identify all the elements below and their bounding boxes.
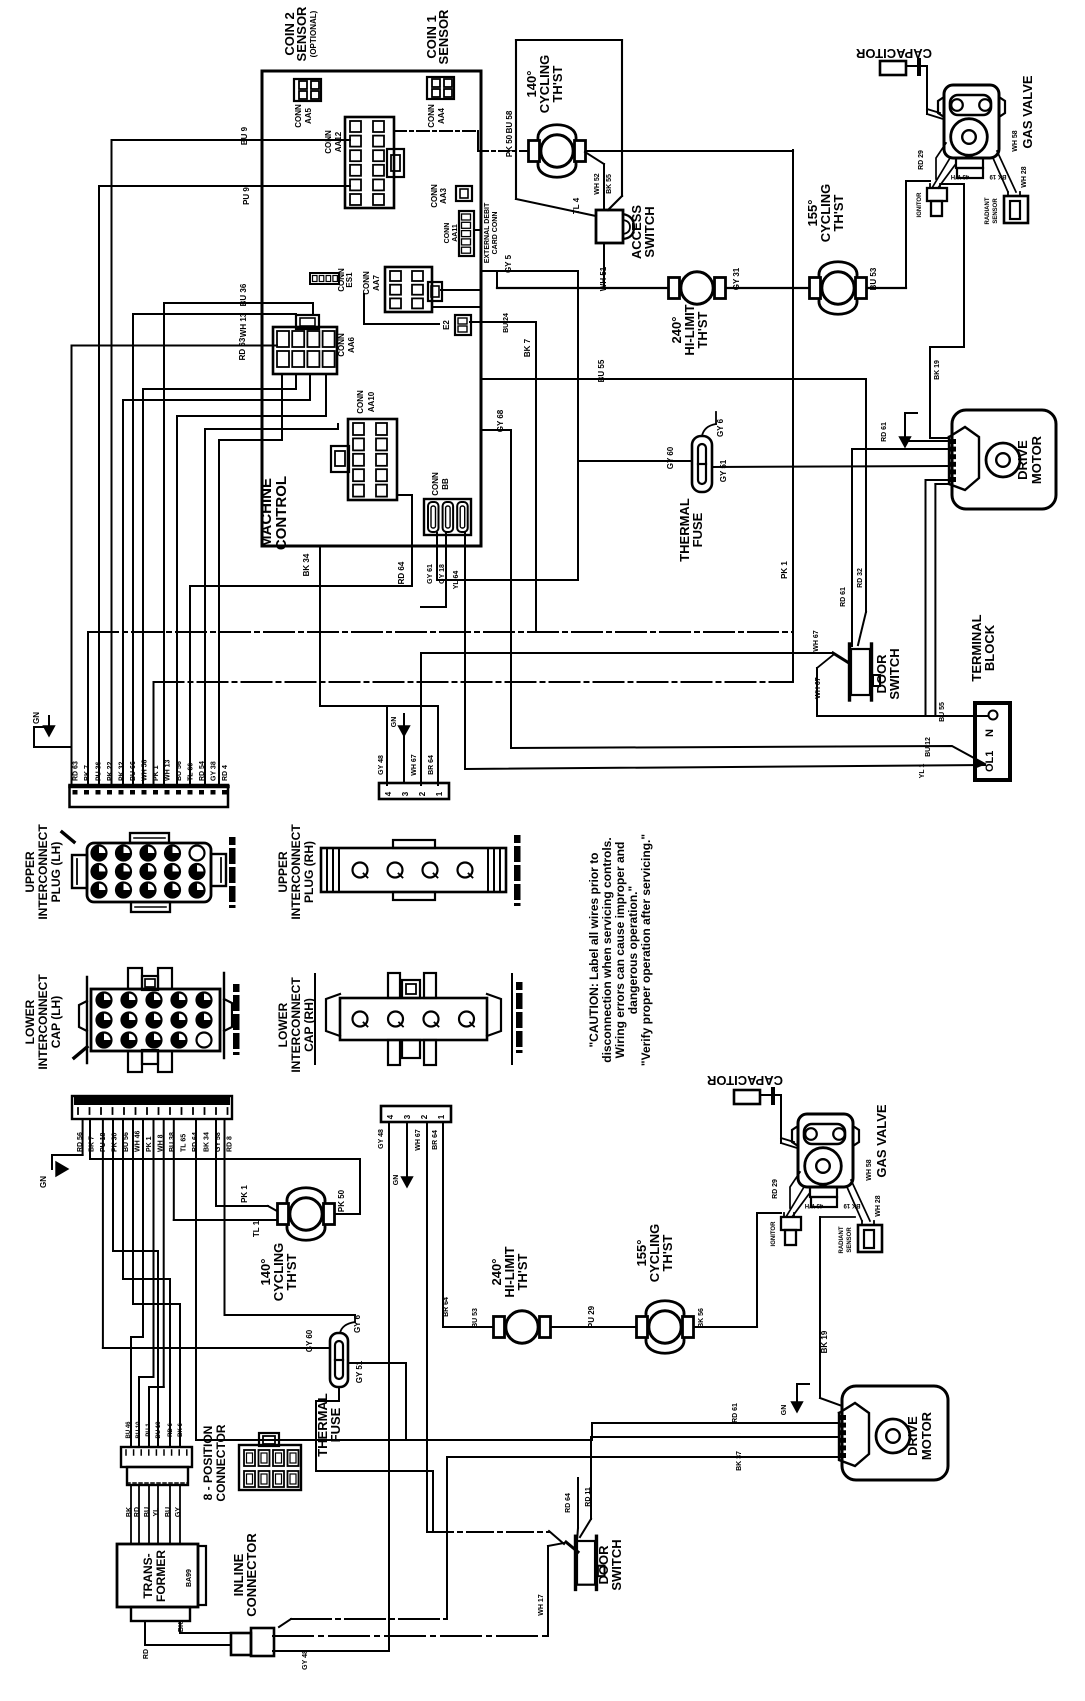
svg-text:GY 38: GY 38 <box>211 761 218 781</box>
svg-text:"Verify proper operation after: "Verify proper operation after servicing… <box>639 834 653 1066</box>
svg-text:BA99: BA99 <box>186 1569 193 1587</box>
svg-text:Wiring errors can cause improp: Wiring errors can cause improper and <box>613 842 627 1059</box>
svg-text:PU 36: PU 36 <box>96 761 103 781</box>
svg-text:WH 58: WH 58 <box>1012 130 1019 152</box>
svg-text:BU 46: BU 46 <box>126 1421 132 1439</box>
svg-text:1: 1 <box>435 791 444 796</box>
svg-text:DRIVE: DRIVE <box>905 1416 920 1456</box>
svg-text:WH 52: WH 52 <box>594 173 601 195</box>
svg-text:WH 51: WH 51 <box>599 266 608 291</box>
svg-text:BU 9: BU 9 <box>240 126 249 145</box>
svg-text:RD 4: RD 4 <box>222 765 229 781</box>
svg-text:AA5: AA5 <box>304 107 313 124</box>
svg-text:UPPER: UPPER <box>276 851 290 893</box>
svg-text:GY 31: GY 31 <box>732 267 741 290</box>
svg-text:BK 34: BK 34 <box>302 553 311 576</box>
svg-text:E2: E2 <box>442 320 451 330</box>
svg-text:PK 32: PK 32 <box>119 761 126 781</box>
svg-text:IGNITOR: IGNITOR <box>917 192 923 218</box>
svg-text:CONNECTOR: CONNECTOR <box>214 1424 228 1501</box>
svg-text:RD 63: RD 63 <box>73 761 80 781</box>
svg-text:WH 28: WH 28 <box>1021 166 1028 188</box>
svg-text:ES1: ES1 <box>345 272 354 288</box>
svg-text:DRIVE: DRIVE <box>1015 440 1030 480</box>
svg-text:YL: YL <box>153 1507 160 1517</box>
svg-text:CONTROL: CONTROL <box>273 476 290 550</box>
svg-text:CAPACITOR: CAPACITOR <box>706 1073 783 1088</box>
svg-text:TH'ST: TH'ST <box>660 1234 675 1271</box>
svg-text:GY 51: GY 51 <box>719 459 728 482</box>
svg-text:BU 18: BU 18 <box>156 1421 162 1439</box>
svg-text:CONN: CONN <box>362 271 371 295</box>
svg-text:TH'ST: TH'ST <box>695 311 710 348</box>
svg-text:BU 24: BU 24 <box>503 313 510 333</box>
svg-text:CAP (RH): CAP (RH) <box>302 998 316 1052</box>
svg-text:AA10: AA10 <box>367 391 376 412</box>
svg-text:BB: BB <box>441 478 450 490</box>
svg-text:FORMER: FORMER <box>154 1550 168 1602</box>
svg-text:FUSE: FUSE <box>690 512 705 547</box>
svg-text:BK 37: BK 37 <box>736 1451 743 1471</box>
svg-text:BU 55: BU 55 <box>939 702 946 722</box>
svg-text:GY 5: GY 5 <box>504 254 513 273</box>
svg-text:BK: BK <box>126 1507 133 1517</box>
svg-text:PK 50: PK 50 <box>505 134 514 157</box>
svg-text:BK 7: BK 7 <box>523 338 532 357</box>
svg-text:AA7: AA7 <box>372 274 381 291</box>
svg-text:CONN: CONN <box>444 223 451 244</box>
svg-text:GN: GN <box>781 1405 788 1416</box>
svg-text:BK 6: BK 6 <box>178 1423 184 1437</box>
svg-text:"CAUTION: Label all wires prio: "CAUTION: Label all wires prior to <box>587 852 601 1047</box>
svg-text:WH 67: WH 67 <box>411 754 418 776</box>
svg-text:IGNITOR: IGNITOR <box>771 1221 777 1247</box>
svg-text:GN: GN <box>32 712 41 724</box>
svg-text:SWITCH: SWITCH <box>609 1539 624 1590</box>
svg-text:BU 36: BU 36 <box>239 283 248 306</box>
svg-text:1: 1 <box>437 1114 446 1119</box>
svg-text:BU: BU <box>165 1507 172 1517</box>
svg-text:3: 3 <box>401 791 410 796</box>
svg-text:WH 58: WH 58 <box>142 760 149 782</box>
svg-text:RD 32: RD 32 <box>857 568 864 588</box>
svg-text:RD 6: RD 6 <box>168 1423 174 1437</box>
svg-text:RADIANT: RADIANT <box>985 197 991 224</box>
svg-text:CAP (LH): CAP (LH) <box>49 996 63 1048</box>
svg-text:WH 46: WH 46 <box>135 1131 142 1153</box>
svg-text:SENSOR: SENSOR <box>847 1227 853 1253</box>
svg-text:BU 56: BU 56 <box>176 761 183 781</box>
svg-text:GY: GY <box>175 1507 182 1517</box>
svg-text:RD 63: RD 63 <box>238 337 247 360</box>
svg-text:TH'ST: TH'ST <box>831 194 846 231</box>
svg-text:PK 22: PK 22 <box>107 761 114 781</box>
svg-text:PLUG (LH): PLUG (LH) <box>49 842 63 903</box>
svg-text:OL1: OL1 <box>984 751 996 772</box>
svg-text:CONN: CONN <box>324 130 333 154</box>
svg-text:(OPTIONAL): (OPTIONAL) <box>309 10 318 57</box>
svg-text:WH 67: WH 67 <box>813 630 820 652</box>
svg-text:BR 64: BR 64 <box>443 1297 450 1317</box>
svg-text:GY 48: GY 48 <box>378 755 385 775</box>
svg-text:GN: GN <box>39 1176 48 1188</box>
svg-text:CARD CONN: CARD CONN <box>492 212 499 255</box>
svg-text:BK 19: BK 19 <box>989 173 1007 179</box>
svg-text:BR 64: BR 64 <box>432 1130 439 1150</box>
svg-text:WH 17: WH 17 <box>538 1594 545 1616</box>
svg-text:CONN: CONN <box>356 390 365 414</box>
svg-text:BK 56: BK 56 <box>698 1308 705 1328</box>
svg-text:PU 1: PU 1 <box>146 1423 152 1437</box>
svg-text:BU 38: BU 38 <box>169 1132 176 1152</box>
svg-text:TL 1: TL 1 <box>252 1220 261 1237</box>
svg-text:WH 28: WH 28 <box>875 1195 882 1217</box>
svg-text:CONNECTOR: CONNECTOR <box>244 1533 259 1617</box>
svg-text:PU 9: PU 9 <box>242 187 251 205</box>
svg-text:BK: BK <box>178 1622 185 1632</box>
svg-text:CONN: CONN <box>294 104 303 128</box>
svg-text:TRANS-: TRANS- <box>141 1553 155 1598</box>
svg-text:GY 68: GY 68 <box>496 409 505 432</box>
svg-text:BU 55: BU 55 <box>597 359 606 382</box>
svg-text:4: 4 <box>384 791 393 796</box>
svg-text:MOTOR: MOTOR <box>1029 435 1044 484</box>
svg-text:YL 64: YL 64 <box>453 571 460 590</box>
svg-text:2: 2 <box>418 791 427 796</box>
svg-text:GY 48: GY 48 <box>378 1129 385 1149</box>
svg-text:GAS VALVE: GAS VALVE <box>874 1104 889 1178</box>
svg-text:YL 1: YL 1 <box>919 764 926 779</box>
svg-text:8 - POSITION: 8 - POSITION <box>201 1426 215 1501</box>
svg-text:RD 8: RD 8 <box>227 1136 234 1152</box>
svg-text:AA12: AA12 <box>334 131 343 152</box>
svg-text:GAS VALVE: GAS VALVE <box>1020 75 1035 149</box>
svg-text:SENSOR: SENSOR <box>294 6 309 62</box>
svg-text:MOTOR: MOTOR <box>919 1411 934 1460</box>
svg-text:TH'ST: TH'ST <box>515 1253 530 1290</box>
svg-text:BLOCK: BLOCK <box>982 624 997 671</box>
svg-text:TL 4: TL 4 <box>572 197 581 214</box>
svg-text:RD 64: RD 64 <box>565 1493 572 1513</box>
svg-text:43 WH: 43 WH <box>951 173 969 179</box>
svg-text:EXTERNAL DEBIT: EXTERNAL DEBIT <box>484 202 491 263</box>
svg-text:BK 19: BK 19 <box>934 360 941 380</box>
svg-text:INTERCONNECT: INTERCONNECT <box>289 977 303 1073</box>
svg-text:RADIANT: RADIANT <box>839 1226 845 1253</box>
svg-text:RD: RD <box>143 1649 150 1659</box>
svg-text:RD 61: RD 61 <box>881 422 888 442</box>
svg-text:SWITCH: SWITCH <box>642 206 657 257</box>
svg-text:AA4: AA4 <box>437 107 446 124</box>
svg-text:BK 34: BK 34 <box>204 1132 211 1152</box>
svg-text:CAPACITOR: CAPACITOR <box>855 46 932 61</box>
svg-text:GY 60: GY 60 <box>666 446 675 469</box>
svg-text:GY 61: GY 61 <box>427 564 434 584</box>
svg-text:PK 1: PK 1 <box>240 1185 249 1203</box>
svg-text:INTERCONNECT: INTERCONNECT <box>36 974 50 1070</box>
svg-text:GY 6: GY 6 <box>716 418 725 437</box>
svg-text:CONN: CONN <box>427 104 436 128</box>
svg-text:PU 29: PU 29 <box>587 1305 596 1328</box>
svg-text:PLUG (RH): PLUG (RH) <box>302 841 316 903</box>
svg-text:TL 66: TL 66 <box>188 763 195 781</box>
svg-text:BU 53: BU 53 <box>869 267 878 290</box>
svg-text:TL 65: TL 65 <box>181 1134 188 1152</box>
svg-text:GN: GN <box>393 1175 400 1186</box>
svg-text:UPPER: UPPER <box>23 851 37 893</box>
svg-text:LOWER: LOWER <box>23 999 37 1044</box>
svg-text:TH'ST: TH'ST <box>284 1253 299 1290</box>
svg-text:RD 64: RD 64 <box>397 561 406 584</box>
svg-text:BK 19: BK 19 <box>820 1330 829 1353</box>
svg-text:CONN: CONN <box>431 472 440 496</box>
svg-text:RD 61: RD 61 <box>840 587 847 607</box>
svg-text:SWITCH: SWITCH <box>887 648 902 699</box>
svg-text:RD 61: RD 61 <box>732 1403 739 1423</box>
svg-text:WH 13: WH 13 <box>239 312 248 337</box>
svg-text:2: 2 <box>420 1114 429 1119</box>
svg-text:RD 11: RD 11 <box>585 1487 592 1507</box>
svg-text:GY 18: GY 18 <box>439 564 446 584</box>
svg-text:BK 55: BK 55 <box>606 174 613 194</box>
svg-text:dangerous operation.": dangerous operation." <box>626 886 640 1014</box>
svg-text:BU 53: BU 53 <box>472 1308 479 1328</box>
svg-text:BK 19: BK 19 <box>843 1202 861 1208</box>
svg-text:RD: RD <box>134 1507 141 1517</box>
svg-text:PK 1: PK 1 <box>146 1136 153 1152</box>
svg-text:SENSOR: SENSOR <box>993 198 999 224</box>
svg-text:PK 1: PK 1 <box>780 561 789 579</box>
svg-text:INTERCONNECT: INTERCONNECT <box>36 824 50 920</box>
svg-text:BU 58: BU 58 <box>505 110 514 133</box>
svg-text:RD 29: RD 29 <box>772 1179 779 1199</box>
svg-text:WH 58: WH 58 <box>866 1159 873 1181</box>
svg-text:TH'ST: TH'ST <box>550 65 565 102</box>
svg-text:BR 64: BR 64 <box>428 755 435 775</box>
svg-text:CONN: CONN <box>337 333 346 357</box>
svg-text:BU: BU <box>144 1507 151 1517</box>
svg-text:SENSOR: SENSOR <box>436 9 451 65</box>
svg-text:CONN: CONN <box>430 184 439 208</box>
svg-text:AA6: AA6 <box>347 336 356 353</box>
svg-text:LOWER: LOWER <box>276 1002 290 1047</box>
svg-text:RD 54: RD 54 <box>199 761 206 781</box>
svg-text:BU 12: BU 12 <box>925 737 932 757</box>
svg-text:BU 56: BU 56 <box>123 1132 130 1152</box>
svg-text:disconnection when servicing c: disconnection when servicing controls. <box>600 837 614 1062</box>
svg-text:BU 10: BU 10 <box>136 1421 142 1439</box>
svg-text:PK 50: PK 50 <box>337 1189 346 1212</box>
svg-text:AA11: AA11 <box>452 224 459 242</box>
svg-text:FUSE: FUSE <box>328 1407 343 1442</box>
svg-text:GY 48: GY 48 <box>302 1650 309 1670</box>
svg-text:WH 13: WH 13 <box>165 760 172 782</box>
svg-text:RD 29: RD 29 <box>918 150 925 170</box>
svg-text:N: N <box>984 729 996 737</box>
svg-text:4: 4 <box>386 1114 395 1119</box>
svg-text:PK 1: PK 1 <box>153 765 160 781</box>
svg-text:3: 3 <box>403 1114 412 1119</box>
svg-text:BK 7: BK 7 <box>84 765 91 781</box>
svg-text:INTERCONNECT: INTERCONNECT <box>289 824 303 920</box>
svg-text:BU 66: BU 66 <box>130 761 137 781</box>
svg-text:GN: GN <box>391 717 398 728</box>
svg-text:WH 67: WH 67 <box>415 1129 422 1151</box>
svg-text:43 WH: 43 WH <box>805 1202 823 1208</box>
svg-text:AA3: AA3 <box>439 187 448 204</box>
